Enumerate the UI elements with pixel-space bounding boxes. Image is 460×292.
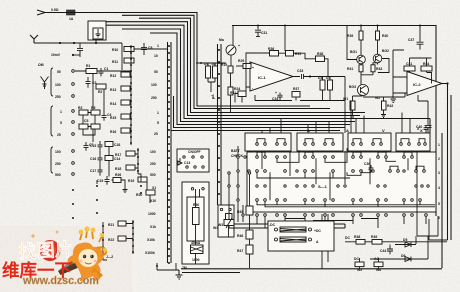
shunt resistor RS2 [275, 237, 312, 242]
svg-text:R40: R40 [382, 34, 388, 38]
resistor W3 [218, 205, 234, 237]
svg-text:IC-2: IC-2 [413, 82, 421, 87]
resistor R42 [382, 101, 394, 110]
op-amp IC-1 [250, 62, 293, 91]
svg-text:1: 1 [60, 110, 62, 114]
battery box outer [182, 182, 209, 264]
wire transistor rail [361, 26, 378, 56]
svg-text:C36: C36 [364, 162, 370, 166]
wire bus line 8 [174, 96, 346, 128]
wire top fan line 7 [150, 33, 350, 125]
svg-text:W4: W4 [213, 226, 218, 230]
resistor R46 [237, 230, 253, 239]
svg-text:R13: R13 [110, 88, 116, 92]
wire BG emitters [361, 63, 378, 85]
fuse 1A [67, 10, 76, 15]
node IC2 out [446, 82, 448, 84]
wire R35 [305, 59, 328, 77]
diode D6 [370, 236, 428, 262]
svg-text:25: 25 [57, 133, 61, 137]
svg-text:1: 1 [438, 143, 440, 147]
wire X100k row [157, 263, 176, 270]
svg-text:DC: DC [345, 236, 350, 240]
svg-text:100: 100 [150, 150, 156, 154]
diode D4 [326, 76, 333, 90]
wire under IC1 [255, 95, 345, 101]
node dots on V wire [59, 42, 61, 44]
capacitor C44 [380, 245, 393, 255]
svg-text:www.dzsc.com: www.dzsc.com [22, 275, 99, 287]
bracket A [51, 68, 53, 173]
svg-text:R60: R60 [193, 203, 199, 207]
range labels column B upper [151, 44, 159, 136]
wire range row 50 [75, 70, 131, 72]
svg-text:X10k: X10k [147, 238, 155, 242]
resistor chain mid lower [115, 151, 155, 197]
svg-text:A: A [307, 128, 310, 133]
svg-text:X100k: X100k [145, 251, 155, 255]
wire diode pair [196, 63, 226, 92]
resistor R45 [237, 206, 253, 215]
switch row1 box A1 [245, 133, 291, 151]
shield box [88, 21, 106, 40]
resistor R41 [347, 65, 363, 72]
svg-text:C1: C1 [104, 67, 108, 71]
switch row1 box A2 [297, 133, 343, 151]
svg-text:R19: R19 [221, 63, 227, 67]
wire meter to top line [231, 26, 233, 67]
wire top fan line 3 [139, 18, 365, 112]
svg-text:1000: 1000 [148, 212, 156, 216]
svg-text:R10: R10 [112, 48, 118, 52]
svg-text:4: 4 [438, 186, 440, 190]
svg-text:IC-1: IC-1 [258, 75, 266, 80]
wire bus line 9 [171, 130, 340, 132]
wire battery internals [196, 189, 229, 264]
row6 contacts [256, 214, 428, 217]
node IC1 out [293, 69, 310, 79]
resistor R26a [113, 173, 121, 183]
svg-text:5: 5 [60, 121, 62, 125]
wire ladder vertical [121, 43, 123, 70]
svg-text:250: 250 [150, 162, 156, 166]
svg-text:W1: W1 [343, 97, 348, 101]
contacts left lower rows [228, 172, 251, 187]
wire bottom bus 1 [234, 223, 345, 225]
battery cell hatched [191, 241, 204, 254]
svg-text:C18: C18 [114, 143, 120, 147]
svg-text:+DC: +DC [314, 229, 321, 233]
transistor BG2 [373, 49, 389, 63]
svg-text:BG2: BG2 [382, 49, 389, 53]
capacitor C4 [102, 112, 112, 121]
wire top fan line 1 [50, 13, 310, 107]
resistor R49 [371, 235, 382, 244]
resistor R20a [105, 142, 120, 148]
capacitor C41 [404, 62, 415, 71]
wire top fan line 2 [122, 15, 330, 108]
svg-text:C13: C13 [184, 161, 190, 165]
resistor R27 [230, 91, 246, 97]
svg-text:-: - [252, 86, 253, 90]
wire W R net [353, 93, 406, 113]
svg-text:BG1: BG1 [350, 50, 357, 54]
svg-text:μA: μA [211, 94, 215, 99]
op-amp IC-2 [407, 72, 442, 96]
resistor R24 [228, 87, 240, 95]
svg-text:+: + [275, 91, 277, 95]
svg-text:C33: C33 [297, 69, 303, 73]
wafer strip 2 [218, 44, 222, 205]
diode C13 in box [178, 158, 190, 165]
resistor R47 [237, 245, 253, 254]
resistor R48 [354, 235, 365, 244]
svg-text:C8: C8 [148, 46, 152, 50]
resistor R43b [371, 65, 382, 72]
resistor R22 [108, 236, 126, 242]
wire ladder spine [130, 45, 132, 145]
svg-text:250: 250 [55, 162, 61, 166]
lone contacts lower [72, 189, 74, 219]
svg-text:CN/OFF: CN/OFF [188, 150, 201, 154]
svg-text:5: 5 [438, 202, 440, 206]
resistor R39 [347, 31, 363, 40]
svg-text:R3: R3 [78, 106, 82, 110]
wire vertical ladder join [93, 73, 104, 142]
wire top rail [232, 26, 436, 217]
svg-text:C37: C37 [408, 38, 414, 42]
svg-text:C19: C19 [97, 179, 103, 183]
svg-text:R35: R35 [295, 52, 301, 56]
pot W5 [355, 262, 364, 272]
svg-text:250: 250 [151, 96, 157, 100]
row3 contacts [256, 170, 426, 173]
wire top fan line 4 [106, 22, 360, 116]
resistor R28 [292, 87, 300, 97]
ground W1 [350, 113, 355, 119]
svg-text:R18: R18 [115, 167, 121, 171]
svg-text:R12: R12 [110, 74, 116, 78]
svg-text:D5: D5 [403, 238, 407, 242]
watermark zhao tu pian [18, 231, 73, 262]
svg-text:BG3: BG3 [349, 85, 356, 89]
row1 contacts [256, 143, 427, 146]
svg-text:R43: R43 [376, 67, 382, 71]
resistor R23 [221, 63, 233, 73]
capacitor C7 [84, 142, 94, 151]
svg-text:250: 250 [55, 95, 61, 99]
svg-text:3: 3 [438, 171, 440, 175]
switch row1 box X [396, 133, 430, 151]
capacitor C21 [255, 25, 267, 37]
svg-text:R36: R36 [268, 47, 274, 51]
capacitor C8 [141, 43, 152, 55]
svg-text:C17: C17 [90, 169, 96, 173]
chain contacts [137, 149, 142, 194]
wire meter chain down [230, 73, 232, 112]
wire bottom bus 2 [229, 224, 345, 228]
wire to feedback [284, 26, 286, 52]
ground in shield box [96, 29, 101, 37]
svg-text:100: 100 [151, 83, 157, 87]
diode D3 [318, 76, 325, 90]
wire top fan line 6 [122, 29, 355, 122]
row3 link wire [257, 166, 424, 178]
resistor R14 [110, 100, 130, 106]
capacitor C30 [272, 91, 283, 101]
diode D2 [212, 62, 218, 78]
svg-text:R42: R42 [387, 104, 393, 108]
row2 jumpers [257, 152, 412, 156]
ground cluster [123, 184, 128, 193]
svg-text:1: 1 [157, 111, 159, 115]
svg-text:25: 25 [154, 132, 158, 136]
svg-text:D3: D3 [318, 76, 322, 80]
svg-text:R19: R19 [128, 179, 134, 183]
capacitor C17 [90, 166, 103, 176]
svg-text:R26: R26 [115, 173, 121, 177]
svg-text:C44: C44 [380, 249, 386, 253]
capacitor C15 [90, 141, 103, 151]
capacitor C42 top X [417, 125, 429, 133]
svg-text:1: 1 [157, 44, 159, 48]
label BATT CHECK [231, 149, 244, 158]
svg-text:S—1: S—1 [318, 184, 328, 189]
svg-text:R15: R15 [110, 116, 116, 120]
diode D5 [395, 238, 416, 247]
wafer strip 2 contacts [218, 49, 220, 195]
batt check contacts [237, 156, 244, 216]
probe ohm terminal [41, 77, 49, 90]
svg-text:R39: R39 [347, 34, 353, 38]
svg-text:C14: C14 [114, 157, 120, 161]
wire diodes D3 D4 [323, 77, 331, 101]
pot W4 [213, 218, 234, 230]
svg-text:A: A [346, 128, 349, 133]
shunt resistor RS1 [275, 227, 312, 232]
svg-text:-DC: -DC [269, 223, 276, 227]
svg-text:X1k: X1k [150, 225, 156, 229]
resistor R30 [286, 51, 302, 57]
svg-text:R2: R2 [98, 90, 102, 94]
node rail [360, 25, 362, 27]
watermark mascot [58, 226, 107, 282]
svg-text:DC: DC [354, 257, 359, 261]
chain contacts lower [132, 221, 134, 253]
svg-text:Ma: Ma [219, 38, 224, 42]
wire IC2 output [442, 84, 448, 241]
resistor R11 [112, 58, 134, 64]
wire C40 [418, 95, 428, 118]
resistor R25 [238, 59, 251, 69]
svg-text:5: 5 [157, 121, 159, 125]
svg-text:R37: R37 [293, 87, 299, 91]
resistor R44 [421, 62, 432, 71]
resistor network cluster [78, 106, 100, 135]
svg-text:D6: D6 [401, 254, 405, 258]
wire R48 R49 row [345, 241, 447, 243]
switch box ON/OFF [177, 149, 209, 172]
svg-text:+: + [238, 44, 240, 48]
svg-text:W3: W3 [218, 223, 223, 227]
pot W6 [374, 262, 383, 272]
probe input V [30, 35, 38, 43]
wire IC1 minus input [235, 87, 250, 103]
wire IC1 plus input [236, 65, 251, 67]
resistor R20b [105, 156, 120, 162]
ground R42 [381, 112, 386, 118]
svg-text:R45: R45 [237, 210, 243, 214]
resistor R35 [316, 52, 325, 62]
svg-text:+: + [252, 66, 254, 70]
resistor R21 [108, 221, 126, 227]
capacitor C36 [362, 162, 374, 173]
switch row1 box V [348, 133, 391, 151]
svg-text:R38: R38 [317, 52, 323, 56]
node column J [102, 222, 113, 260]
contacts x97 [96, 185, 98, 214]
resistor R13 [110, 86, 130, 92]
ground IC2 input [391, 93, 397, 103]
wire right nest [416, 151, 438, 244]
wire bottom mid [182, 272, 240, 274]
wire batt check column [238, 146, 243, 222]
resistor R10 [112, 47, 134, 53]
row2 contacts [256, 156, 414, 159]
svg-text:2: 2 [438, 157, 440, 161]
row1 jumpers [257, 139, 425, 143]
svg-text:V: V [382, 128, 385, 133]
svg-text:R17: R17 [115, 153, 121, 157]
switch matrix outer [247, 152, 436, 212]
resistor R15 [110, 114, 130, 120]
svg-text:R41: R41 [347, 67, 353, 71]
svg-text:R47: R47 [237, 249, 243, 253]
wire long bottom [181, 268, 442, 270]
svg-text:X10: X10 [150, 199, 156, 203]
capacitor C16 [90, 154, 103, 164]
pot W1 [343, 97, 355, 110]
meter M [219, 38, 240, 55]
svg-text:R14: R14 [110, 102, 116, 106]
resistor R12 [110, 72, 130, 78]
svg-text:R49: R49 [371, 235, 377, 239]
wire chain lower [126, 220, 133, 254]
resistor R1 [86, 64, 97, 74]
probe input mA [37, 10, 50, 15]
contacts column A [72, 70, 75, 176]
row6 links [285, 219, 378, 221]
svg-text:50: 50 [154, 70, 158, 74]
svg-text:ΩM: ΩM [38, 63, 44, 67]
bus drop verticals [262, 77, 410, 134]
svg-text:R11: R11 [112, 60, 118, 64]
row index labels [438, 143, 440, 220]
wire cluster links [97, 147, 125, 185]
diode D1 [204, 62, 211, 78]
svg-text:100: 100 [55, 83, 61, 87]
shunt box [268, 221, 334, 251]
resistor R2 [96, 84, 106, 94]
capacitor C37 [408, 25, 424, 50]
wire shunt stubs [322, 214, 328, 269]
svg-text:50: 50 [57, 70, 61, 74]
resistor R16 [110, 128, 130, 134]
wire chain [135, 148, 150, 203]
resistor R40 [376, 31, 389, 40]
svg-text:C31: C31 [261, 31, 267, 35]
transistor BG1 [350, 50, 365, 64]
svg-text:C16: C16 [90, 157, 96, 161]
svg-text:C5: C5 [84, 119, 88, 123]
capacitor C6 [72, 43, 83, 57]
ON/OFF contacts [183, 156, 204, 168]
range labels column A [55, 70, 62, 177]
wire bottom right net [360, 219, 430, 269]
range labels column B lower [145, 150, 156, 255]
svg-text:R46: R46 [237, 234, 243, 238]
wafer contacts [168, 45, 170, 264]
capacitor C3 [86, 77, 97, 88]
wire R45 chain [229, 174, 250, 268]
wire top fan line 5 [106, 25, 430, 133]
node top rail [284, 25, 286, 27]
transistor BG3 [349, 85, 369, 96]
wire IC2 inputs [393, 50, 432, 93]
row5 bus [257, 201, 435, 207]
extra matrix contacts [244, 156, 405, 187]
svg-text:500: 500 [150, 173, 156, 177]
capacitor C40 [416, 118, 432, 133]
svg-text:500: 500 [55, 173, 61, 177]
svg-text:R1: R1 [86, 64, 90, 68]
battery box inner [187, 197, 204, 241]
row2 cross links [277, 148, 396, 162]
ladder contact strip B [130, 46, 132, 144]
resistor R26 [268, 47, 279, 56]
svg-text:100: 100 [55, 150, 61, 154]
svg-text:X1: X1 [152, 186, 156, 190]
watermark warm tint [0, 226, 132, 292]
svg-text:找图片: 找图片 [18, 238, 73, 262]
svg-text:1A: 1A [69, 17, 74, 21]
svg-text:R29: R29 [238, 59, 244, 63]
wire BG net [347, 26, 389, 73]
wire feedback [246, 53, 305, 87]
svg-text:0.5Ω: 0.5Ω [51, 8, 59, 12]
contact X100k [156, 265, 158, 267]
ground at wafer bottom [176, 270, 183, 279]
svg-text:BATT: BATT [231, 149, 241, 153]
svg-text:X: X [420, 128, 423, 133]
row4 contacts [264, 185, 429, 187]
svg-text:7M: 7M [182, 266, 187, 270]
wire right border inner [429, 95, 451, 268]
svg-text:C15: C15 [90, 144, 96, 148]
row5 contacts [256, 199, 422, 202]
wire IC1 output [310, 76, 345, 78]
svg-text:10mV: 10mV [51, 53, 61, 57]
resistor R60 [193, 203, 200, 225]
matrix weave verticals [262, 151, 408, 200]
rotary switch wafer S left [168, 42, 172, 263]
wire R10 to wafer [134, 48, 168, 50]
svg-text:R16: R16 [110, 130, 116, 134]
capacitor C19 [97, 176, 110, 185]
stubs below row6 [257, 216, 426, 228]
svg-text:R48: R48 [354, 235, 360, 239]
capacitor C1 [99, 67, 109, 76]
